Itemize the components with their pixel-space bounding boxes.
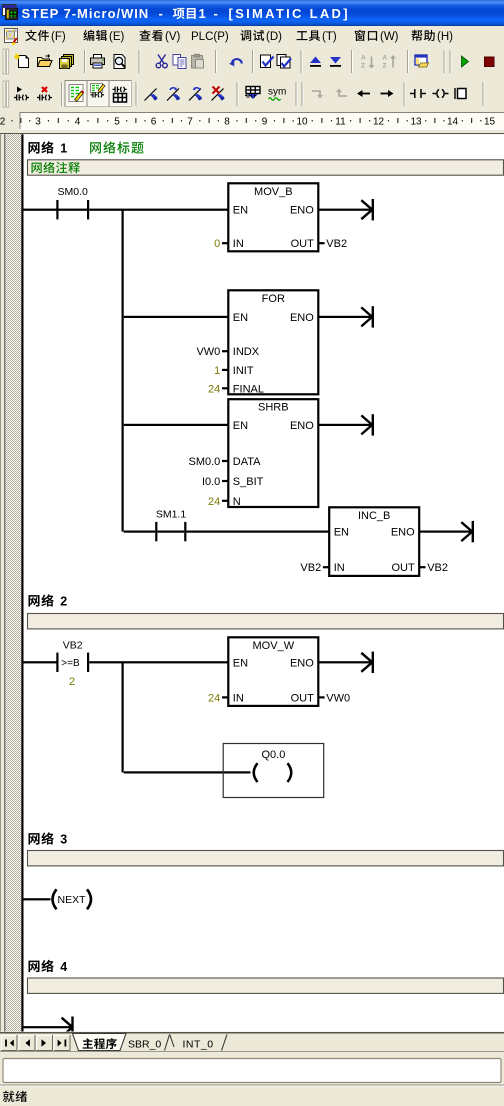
left power rail [21,134,23,1031]
svg-text:FOR: FOR [262,293,285,305]
network 1 title text [90,142,101,153]
svg-text:3: 3 [60,833,67,847]
svg-text:8: 8 [224,117,230,128]
svg-text:(F): (F) [51,31,66,43]
wire: junction to FOR EN [124,316,229,318]
box SHRB [228,399,318,507]
box INC_B [329,507,419,576]
svg-text:1: 1 [214,365,220,377]
svg-text:(D): (D) [266,31,282,43]
svg-text:Q0.0: Q0.0 [261,749,285,761]
svg-text:4: 4 [60,960,67,974]
svg-text:INDX: INDX [233,346,260,358]
svg-text:A: A [361,55,366,62]
contact SM1.1 [155,522,157,541]
svg-text:14: 14 [447,117,459,128]
svg-text:1: 1 [60,142,67,156]
svg-text:PLC(P): PLC(P) [191,31,229,43]
wire: junction to coil Q0.0 [124,771,251,773]
junction column network 2 [122,662,124,772]
network 3 comment box [28,851,504,866]
svg-text:OUT: OUT [391,562,415,574]
svg-text:STEP 7-Micro/WIN: STEP 7-Micro/WIN [22,6,150,21]
svg-text:INIT: INIT [233,365,254,377]
box MOV_W [228,637,318,706]
svg-text:Z: Z [361,63,365,70]
svg-text:12: 12 [373,117,385,128]
box FOR [228,290,318,394]
svg-text:ENO: ENO [290,205,314,217]
svg-text:ENO: ENO [290,420,314,432]
svg-text:SM1.1: SM1.1 [156,509,187,521]
svg-text:24: 24 [208,383,220,395]
open arrow SHRB ENO [318,424,370,426]
svg-text:2: 2 [60,595,67,609]
svg-text:15: 15 [484,117,496,128]
svg-text:VB2: VB2 [63,640,83,652]
svg-text:EN: EN [233,657,248,669]
network 2 comment box [28,614,504,629]
wire: contact SM1.1 interior [157,531,184,533]
contact SM0.0 [56,200,58,219]
network 2 label [28,595,39,606]
svg-text:EN: EN [233,420,248,432]
open arrow network 4 (clipped) [71,1017,73,1032]
svg-text:(E): (E) [109,31,125,43]
wire: SM1.1 to INC_B EN [186,531,329,533]
svg-text:I0.0: I0.0 [202,476,220,488]
svg-text:VW0: VW0 [196,346,220,358]
svg-text:INC_B: INC_B [358,510,390,522]
wire: contact VB2 to MOV_W EN [89,661,228,663]
svg-text:(V): (V) [165,31,181,43]
svg-text:13: 13 [410,117,422,128]
open arrow MOV_W ENO [318,661,370,663]
svg-text:N: N [233,496,241,508]
svg-text:10: 10 [296,117,308,128]
svg-text:SHRB: SHRB [258,402,289,414]
svg-text:9: 9 [262,117,268,128]
open arrow MOV_B ENO [318,209,370,211]
svg-text:OUT: OUT [291,238,315,250]
svg-text:ENO: ENO [290,657,314,669]
svg-text:IN: IN [233,238,244,250]
svg-text:IN: IN [334,562,345,574]
wire: rail to contact VB2 [22,661,56,663]
svg-text:VB2: VB2 [300,562,321,574]
svg-text:OUT: OUT [291,692,315,704]
svg-text:FINAL: FINAL [233,383,264,395]
svg-text:EN: EN [233,312,248,324]
svg-text:24: 24 [208,496,220,508]
svg-text:7: 7 [187,117,193,128]
wire: contact interior [59,209,88,211]
network 1 label [28,142,39,153]
svg-text:VB2: VB2 [427,562,448,574]
svg-text:SM0.0: SM0.0 [58,186,89,198]
svg-text:VW0: VW0 [326,692,350,704]
wire: contact SM0.0 to MOV_B EN [89,209,228,211]
svg-text:A: A [383,55,388,62]
svg-text:(H): (H) [437,31,453,43]
svg-text:SM0.0: SM0.0 [189,456,221,468]
svg-text:ENO: ENO [391,527,415,539]
svg-text:INT_0: INT_0 [183,1039,214,1051]
wire: junction to contact SM1.1 [124,531,156,533]
svg-text:MOV_W: MOV_W [253,640,295,652]
svg-text:2: 2 [0,117,6,128]
svg-text:ENO: ENO [290,312,314,324]
svg-text:0: 0 [214,238,220,250]
svg-text:MOV_B: MOV_B [254,186,293,198]
svg-text:NEXT: NEXT [57,894,86,906]
network 4 comment box [28,978,504,993]
network 4 label [28,961,39,972]
svg-text:6: 6 [151,117,157,128]
box MOV_B [228,183,318,251]
svg-text:-: - [159,6,163,21]
svg-text:EN: EN [334,527,349,539]
junction column network 1 [122,210,124,532]
svg-text:5: 5 [114,117,120,128]
network 3 label [28,833,39,844]
svg-text:11: 11 [335,117,346,128]
svg-text:4: 4 [75,117,81,128]
svg-text:-: - [214,6,218,21]
svg-text:1: 1 [199,6,206,21]
wire: rail network 4 rung [22,1026,71,1028]
svg-text:2: 2 [69,676,75,688]
svg-text:24: 24 [208,692,220,704]
svg-text:[SIMATIC LAD]: [SIMATIC LAD] [229,6,350,21]
svg-text:S_BIT: S_BIT [233,476,264,488]
open arrow FOR ENO [318,316,370,318]
network 1 comment box [28,160,504,175]
svg-text:SBR_0: SBR_0 [128,1039,161,1051]
svg-text:IN: IN [233,692,244,704]
wire: rail to coil NEXT [22,898,50,900]
wire: junction to SHRB EN [124,424,229,426]
svg-text:>=B: >=B [61,658,80,669]
svg-text:3: 3 [35,117,41,128]
svg-text:(W): (W) [380,31,399,43]
svg-text:DATA: DATA [233,456,261,468]
svg-text:VB2: VB2 [326,238,347,250]
svg-text:Z: Z [383,63,387,70]
svg-text:(T): (T) [322,31,337,43]
svg-text:EN: EN [233,205,248,217]
wire: rail to contact SM0.0 [22,209,56,211]
comparator contact VB2 >=B 2 [56,653,58,672]
open arrow INC_B ENO [419,531,470,533]
selection frame around coil Q0.0 [223,744,324,798]
coil NEXT [53,889,57,909]
svg-text:sym: sym [268,87,286,98]
